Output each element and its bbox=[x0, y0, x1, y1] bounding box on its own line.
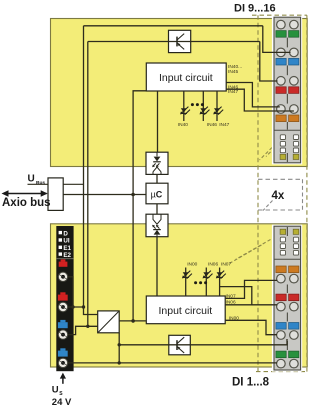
wire: DC/DC output to input circuit bottom bbox=[119, 320, 146, 322]
optocoupler U5 symbol bbox=[152, 214, 161, 237]
dashed 4x box bottom bbox=[258, 209, 303, 211]
wire: input circuit top to unit 4 right bbox=[226, 89, 294, 111]
svg-text:IN06: IN06 bbox=[226, 299, 236, 305]
svg-text:U: U bbox=[52, 385, 59, 396]
svg-text:UI: UI bbox=[63, 238, 69, 245]
Axio bus arrow (double headed) bbox=[2, 190, 48, 197]
LED symbol IN47 bbox=[213, 107, 223, 115]
svg-text:IN40: IN40 bbox=[178, 122, 188, 128]
screw terminal 3 bbox=[58, 330, 67, 339]
wire labels IN07 IN06 IN00 bbox=[226, 293, 240, 321]
optocoupler box bottom U5 bbox=[146, 214, 168, 237]
wire: UBus line to rail bbox=[28, 183, 48, 185]
input circuit box top U2 bbox=[146, 63, 226, 91]
optocoupler box top U3 bbox=[146, 152, 168, 174]
dashed 4x box right bbox=[302, 179, 304, 210]
wire: LED drops IN40 IN46 IN47 bbox=[183, 91, 185, 121]
svg-text:D: D bbox=[63, 230, 68, 237]
red clamps unit 3 bbox=[276, 87, 286, 94]
wire: IN06 to unit 2 red bbox=[220, 287, 277, 305]
unit 4 bridge bbox=[286, 122, 288, 130]
input circuit box bottom U1 bbox=[146, 296, 225, 324]
unit 1-2 bridge bbox=[286, 285, 288, 294]
unit 2-3 bridge bbox=[286, 313, 288, 322]
wire: rail V2 through transistor Q2 bbox=[88, 42, 260, 327]
wire: optocoupler U5 to input circuit bottom bbox=[156, 237, 158, 296]
svg-text:IN07: IN07 bbox=[221, 262, 231, 268]
transistor Q1 symbol bbox=[177, 337, 184, 353]
transistor Q2 symbol bbox=[177, 34, 184, 50]
screw terminal 4 bbox=[58, 358, 67, 367]
svg-text:24 V: 24 V bbox=[52, 397, 72, 408]
red clamp terminal 2 bbox=[60, 292, 65, 295]
center key line bbox=[286, 153, 288, 162]
svg-text:DI 1...8: DI 1...8 bbox=[232, 377, 270, 389]
wire: IN00 to unit 3 blue bbox=[225, 320, 277, 334]
orange clamps unit 4 bbox=[276, 115, 286, 122]
red clamp terminal 1 bbox=[61, 259, 66, 261]
green clamps unit 1 bbox=[276, 31, 286, 38]
dashed callout diagonals to bottom LED area bbox=[236, 240, 271, 260]
screw terminal 2 bbox=[58, 302, 67, 311]
LED symbol IN07 bbox=[216, 271, 226, 279]
wire: LED risers IN00 IN06 IN07 bbox=[185, 268, 187, 297]
ellipsis dots top bbox=[191, 103, 204, 106]
svg-text:IN47: IN47 bbox=[219, 122, 229, 128]
terminal screws unit 3 bbox=[277, 77, 286, 86]
terminal screws unit 4 bbox=[277, 105, 286, 114]
LED symbol IN46 bbox=[200, 107, 210, 115]
yellow block top (DI 9...16 section) bbox=[51, 19, 308, 167]
wire: optocoupler U3 to microcontroller bbox=[156, 174, 158, 183]
wire: terminal 3 to DC/DC lower input bbox=[68, 326, 88, 334]
wire: bus connector to microcontroller bbox=[63, 194, 146, 196]
DC/DC converter U6 bbox=[98, 311, 120, 333]
center key line bbox=[286, 227, 288, 236]
svg-text:IN47: IN47 bbox=[228, 89, 238, 95]
svg-text:Input circuit: Input circuit bbox=[159, 305, 213, 317]
svg-text:IN45: IN45 bbox=[228, 69, 238, 75]
microcontroller box U4 bbox=[146, 183, 168, 204]
blue clamp terminal 4 bbox=[60, 348, 65, 351]
LED symbol IN00 bbox=[182, 271, 192, 279]
terminal screws unit 4 bbox=[277, 359, 286, 368]
terminal block DI 9...16 (top right) bbox=[272, 16, 302, 165]
green clamps unit 4 bbox=[276, 351, 286, 358]
unit 2 bridge bbox=[286, 65, 288, 75]
terminal screws unit 2 bbox=[277, 302, 286, 311]
svg-text:4x: 4x bbox=[272, 190, 285, 202]
svg-text:IN00: IN00 bbox=[229, 316, 239, 322]
strip divider bbox=[56, 258, 73, 260]
unit 1 bridge bbox=[286, 38, 288, 48]
wire: microcontroller to optocoupler U5 bbox=[156, 204, 158, 214]
wire: terminal 1 feed bbox=[68, 277, 84, 307]
labels at input circuit top right bbox=[228, 64, 242, 95]
dashed boundary bottom bbox=[256, 371, 305, 373]
svg-text:E2: E2 bbox=[63, 252, 71, 259]
keying elements bbox=[280, 154, 286, 159]
labels IN40 IN46 IN47 bbox=[178, 122, 230, 128]
keying elements bbox=[280, 229, 286, 234]
LED E1 bbox=[59, 246, 62, 249]
bus connector box bbox=[48, 178, 63, 211]
wire: input circuit top to optocoupler U3 bbox=[157, 91, 159, 152]
wire: V1 drop to terminal unit 2 bbox=[263, 26, 291, 53]
junction dots bbox=[131, 193, 135, 197]
wire: DC/DC bottom riser bbox=[118, 333, 120, 363]
wire: through transistor Q1 to unit 3 right bbox=[119, 339, 287, 345]
dashed boundary vertical right bbox=[306, 15, 308, 371]
unit 3 bridge bbox=[286, 94, 288, 104]
svg-text:IN00: IN00 bbox=[187, 262, 197, 268]
svg-text:Input circuit: Input circuit bbox=[159, 72, 213, 84]
yellow block bottom (DI 1...8 section) bbox=[51, 224, 308, 367]
ellipsis dots bottom bbox=[194, 281, 207, 284]
wire: input circuit top to unit 4 left bbox=[226, 83, 280, 107]
wire: input circuit top down to bus node bbox=[133, 91, 146, 321]
blue clamps unit 2 bbox=[276, 58, 286, 65]
LED D bbox=[59, 231, 62, 234]
svg-text:IN46: IN46 bbox=[207, 122, 217, 128]
LED E2 bbox=[59, 252, 62, 255]
terminal screws unit 3 bbox=[277, 331, 286, 340]
orange clamps unit 1 bbox=[276, 266, 286, 273]
connector slots bbox=[280, 135, 285, 140]
LED symbol IN40 bbox=[180, 107, 190, 115]
blue clamps unit 3 bbox=[276, 323, 286, 330]
unit 3-4 bridge bbox=[286, 341, 288, 350]
wire: IN07 to unit 1 orange bbox=[225, 280, 277, 298]
terminal block DI 1...8 (bottom right) bbox=[272, 225, 302, 372]
terminal screws unit 1 bbox=[277, 20, 286, 29]
svg-text:Axio bus: Axio bus bbox=[2, 197, 51, 209]
output transistor box bottom Q1 bbox=[169, 335, 191, 355]
svg-text:DI 9...16: DI 9...16 bbox=[234, 3, 276, 15]
slot section separator bbox=[274, 258, 301, 260]
connector slots bbox=[280, 237, 285, 242]
optocoupler U3 symbol bbox=[152, 152, 161, 174]
dashed 4x box top bbox=[258, 178, 303, 180]
red clamps unit 2 bbox=[276, 294, 286, 301]
dashed 4x callout diagonal bbox=[263, 201, 273, 211]
svg-text:IN07: IN07 bbox=[226, 293, 236, 299]
wire: V2 drop to terminal unit 3 bbox=[260, 42, 278, 82]
LED symbol IN06 bbox=[203, 271, 213, 279]
LED UI bbox=[59, 238, 62, 241]
wire: rail V1 (24V) top loop into DC/DC upper input bbox=[84, 26, 263, 315]
output transistor box top Q2 bbox=[169, 30, 191, 52]
terminal screws unit 2 bbox=[277, 48, 286, 57]
dashed boundary vertical left (repeat section) bbox=[257, 15, 259, 371]
left power terminal strip (black) bbox=[56, 226, 73, 371]
svg-text:IN06: IN06 bbox=[208, 262, 218, 268]
screw terminal 1 bbox=[58, 272, 67, 281]
svg-text:Bus: Bus bbox=[36, 180, 45, 186]
dashed callout diagonals to top slot section bbox=[266, 144, 279, 157]
supply arrow up into strip bbox=[60, 373, 66, 384]
slot section separator bbox=[274, 129, 301, 131]
dashed boundary top bbox=[252, 14, 307, 16]
svg-text:U: U bbox=[28, 174, 35, 185]
terminal screws unit 1 bbox=[277, 274, 286, 283]
svg-text:µC: µC bbox=[151, 190, 163, 200]
wire: terminal 4 ground rail to unit 4 green bbox=[68, 362, 277, 364]
labels IN00 IN06 IN07 above LEDs bbox=[187, 262, 231, 268]
blue clamp terminal 3 bbox=[60, 320, 65, 323]
